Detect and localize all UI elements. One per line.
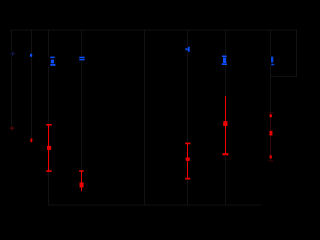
- wire stage3 mid: [48, 66, 49, 124]
- wire stage2 upper: [31, 30, 32, 54]
- component R4 red source: [185, 143, 190, 180]
- component B6 blue polarized: [271, 57, 274, 66]
- wire right horizontal: [270, 76, 297, 77]
- wire stage3 upper: [48, 30, 49, 57]
- component B2 blue source: [50, 57, 55, 66]
- node left dim red plus: [10, 126, 15, 131]
- component B3 blue capacitor: [79, 57, 84, 61]
- wire stage2 lower: [31, 57, 32, 139]
- node V+ marker (dim blue plus): [10, 51, 15, 56]
- wire stage7 mid: [225, 65, 226, 96]
- component R2 red source: [46, 124, 52, 172]
- component right dim red chain: [268, 112, 273, 161]
- wire stage8 upper: [270, 30, 271, 57]
- wire stage6 upper: [187, 30, 188, 47]
- wire V1 upper: [11, 30, 12, 51]
- wire top bus: [10, 30, 297, 31]
- component R6 red dot: [270, 114, 272, 117]
- wire stage3 lower: [48, 172, 49, 205]
- component R8 red dot: [270, 155, 272, 158]
- wire stage4 mid: [81, 60, 82, 170]
- component B4 blue diode: [185, 47, 189, 52]
- wire far right vertical: [296, 30, 297, 77]
- wire stage5 full: [144, 30, 145, 206]
- component R7 red blob: [270, 131, 273, 136]
- wire bottom bus: [48, 205, 261, 206]
- wire stage6 mid: [187, 52, 188, 144]
- wire stage8 mid: [270, 65, 271, 112]
- wire stage7 upper: [225, 30, 226, 56]
- component R1 red dash: [30, 139, 32, 143]
- wire V1 lower: [11, 57, 12, 126]
- wire stage6 lower: [187, 180, 188, 206]
- component B1 blue square: [30, 54, 32, 57]
- component R5 red probe: [222, 96, 228, 155]
- wire stage7 lower: [225, 155, 226, 205]
- component R3 red probe: [79, 170, 84, 191]
- wire stage4 upper: [81, 30, 82, 57]
- component B5 blue source: [222, 56, 227, 66]
